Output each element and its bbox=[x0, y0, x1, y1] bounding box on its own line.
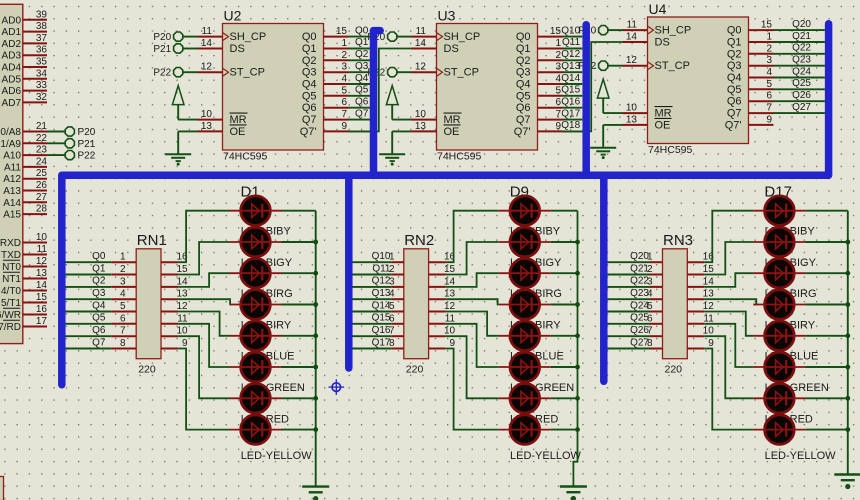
junction bbox=[313, 365, 318, 370]
svg-text:Q22: Q22 bbox=[792, 43, 811, 54]
U1 pin 25 (A12) bbox=[3, 168, 47, 185]
svg-text:12: 12 bbox=[36, 256, 48, 267]
svg-text:14: 14 bbox=[444, 276, 456, 287]
net label Q25 (at RN3) bbox=[630, 313, 649, 324]
svg-text:27: 27 bbox=[36, 192, 48, 203]
junction bbox=[845, 396, 850, 401]
svg-text:Q18: Q18 bbox=[561, 120, 580, 131]
wire bus to RN3 pin 7 bbox=[608, 335, 651, 337]
ground (D1 column) bbox=[302, 487, 329, 500]
svg-text:Q7': Q7' bbox=[514, 126, 531, 138]
wire U3 output row 5 to bus bbox=[563, 95, 583, 97]
svg-text:OE: OE bbox=[230, 126, 246, 138]
value 220 (RN2) bbox=[406, 364, 424, 376]
net label Q5 bbox=[355, 85, 369, 96]
U3 pin 5 bbox=[538, 85, 563, 96]
svg-text:AD0: AD0 bbox=[2, 15, 22, 26]
svg-text:Q1: Q1 bbox=[92, 263, 106, 274]
U4 pin 15 bbox=[749, 20, 774, 31]
svg-text:A15: A15 bbox=[3, 210, 21, 221]
junction bbox=[575, 271, 580, 276]
svg-text:6: 6 bbox=[766, 91, 772, 102]
wire bus to RN3 pin 2 bbox=[608, 274, 651, 276]
svg-text:OE: OE bbox=[444, 126, 460, 138]
wire U3 OE to ground bbox=[392, 131, 411, 154]
value LED-GREEN (D14) bbox=[510, 382, 574, 394]
svg-text:3: 3 bbox=[120, 276, 126, 287]
wire U4 OE to ground bbox=[603, 125, 622, 148]
terminal P20 (at U4) bbox=[578, 26, 607, 37]
svg-text:3: 3 bbox=[766, 55, 772, 66]
svg-text:21: 21 bbox=[36, 121, 48, 132]
LED D22 (LED-GREEN) bbox=[753, 352, 847, 382]
svg-text:SH_CP: SH_CP bbox=[230, 31, 267, 43]
wire P22 to U4 bbox=[608, 65, 622, 67]
U3 pin 7 bbox=[538, 109, 563, 120]
wire VCC to U2 MR bbox=[178, 119, 197, 121]
net label Q7 (at RN1) bbox=[92, 337, 106, 348]
label D17 bbox=[764, 184, 792, 201]
svg-text:11: 11 bbox=[202, 26, 213, 37]
U1 pin 10 (RXD) bbox=[0, 232, 47, 249]
net label Q11 bbox=[562, 37, 581, 48]
U1 pin 16 (6/WR) bbox=[0, 304, 47, 321]
svg-text:Q5: Q5 bbox=[92, 313, 106, 324]
svg-text:Q0: Q0 bbox=[516, 31, 531, 43]
wire P22 to U2 bbox=[183, 71, 197, 73]
RN3 pin 12 bbox=[687, 301, 714, 312]
svg-text:Q20: Q20 bbox=[792, 19, 811, 30]
svg-text:9: 9 bbox=[766, 114, 772, 125]
resistor network RN1 body bbox=[136, 249, 161, 359]
wire U3 output row 4 to bus bbox=[563, 83, 583, 85]
svg-text:Q0: Q0 bbox=[355, 25, 369, 36]
wire U1 pin 23 to terminal P22 bbox=[47, 154, 65, 156]
wire U4 output row 4 to bus bbox=[774, 77, 825, 79]
svg-text:Q6: Q6 bbox=[355, 97, 369, 108]
svg-text:Q3: Q3 bbox=[727, 60, 742, 72]
junction bbox=[845, 365, 850, 370]
RN2 pin 1 bbox=[389, 252, 404, 263]
RN2 pin 16 bbox=[429, 252, 456, 263]
net label Q21 (at RN3) bbox=[630, 263, 649, 274]
RN3 pin 9 bbox=[687, 338, 714, 349]
wire U3 output row 0 to bus bbox=[563, 36, 583, 38]
svg-text:U4: U4 bbox=[649, 1, 667, 17]
wire U2 output row 3 to bus bbox=[349, 71, 371, 73]
wire VCC to U3 MR bbox=[392, 119, 411, 121]
U1 pin 34 (AD5) bbox=[2, 68, 48, 85]
net label Q14 (at RN2) bbox=[372, 300, 391, 311]
RN1 pin 2 bbox=[111, 264, 136, 275]
bus U3 outputs (vertical) bbox=[582, 25, 590, 175]
net label Q18 bbox=[561, 120, 580, 131]
svg-text:14: 14 bbox=[703, 276, 715, 287]
svg-text:Q7: Q7 bbox=[516, 114, 531, 126]
svg-text:Q3: Q3 bbox=[92, 288, 106, 299]
svg-text:Q7: Q7 bbox=[727, 108, 742, 120]
svg-text:5: 5 bbox=[120, 301, 126, 312]
value LED-GREEN (D6) bbox=[241, 382, 305, 394]
svg-text:11: 11 bbox=[37, 244, 48, 255]
wire RN2 pin 16 to D9 anode bbox=[446, 211, 499, 263]
RN2 pin 10 bbox=[429, 326, 456, 337]
label U3 bbox=[438, 8, 456, 24]
svg-text:Q3: Q3 bbox=[355, 61, 369, 72]
value LED-BIGY (D10) bbox=[510, 257, 562, 269]
shift register U2 (74HC595) body bbox=[223, 24, 324, 151]
svg-text:38: 38 bbox=[36, 21, 48, 32]
RN1 pin 12 bbox=[161, 301, 188, 312]
LED D10 (LED-BIGY) bbox=[499, 227, 578, 257]
svg-text:AD5: AD5 bbox=[2, 74, 22, 85]
wire bus to RN3 pin 8 bbox=[608, 348, 651, 350]
svg-text:1: 1 bbox=[555, 38, 561, 49]
svg-text:Q6: Q6 bbox=[302, 102, 317, 114]
value 74HC595 (U2) bbox=[223, 151, 268, 163]
net label Q12 bbox=[561, 49, 580, 60]
U4 pin 3 bbox=[749, 55, 774, 66]
svg-text:13: 13 bbox=[201, 121, 213, 132]
value LED-BIRY (D20) bbox=[765, 319, 816, 331]
U2 pin 9 bbox=[324, 121, 349, 132]
net label Q23 (at RN3) bbox=[630, 288, 649, 299]
wire RN2 pin 15 to D10 anode bbox=[446, 242, 499, 275]
bus RN3 inputs (vertical) bbox=[600, 175, 608, 381]
net label Q10 (at RN2) bbox=[372, 251, 391, 262]
wire RN1 pin 9 to D8 anode bbox=[178, 349, 229, 430]
svg-text:P20: P20 bbox=[78, 127, 96, 138]
svg-text:Q12: Q12 bbox=[372, 276, 391, 287]
svg-text:A11: A11 bbox=[4, 162, 21, 173]
svg-text:Q5: Q5 bbox=[355, 85, 369, 96]
svg-text:9: 9 bbox=[341, 121, 347, 132]
U3 pin 13 bbox=[412, 121, 437, 132]
wire U4 output row 2 to bus bbox=[774, 53, 825, 55]
net label Q24 bbox=[792, 66, 811, 77]
net label Q7 bbox=[355, 108, 369, 119]
value LED-BIGY (D18) bbox=[765, 257, 817, 269]
label RN2 bbox=[404, 232, 434, 249]
svg-text:P20: P20 bbox=[153, 32, 171, 43]
svg-text:Q24: Q24 bbox=[792, 66, 811, 77]
svg-text:11: 11 bbox=[703, 313, 714, 324]
svg-text:35: 35 bbox=[36, 57, 48, 68]
svg-text:13: 13 bbox=[415, 121, 427, 132]
wire U2 output row 2 to bus bbox=[349, 59, 371, 61]
wire U3 output row 3 to bus bbox=[563, 71, 583, 73]
svg-text:Q7': Q7' bbox=[300, 126, 317, 138]
net label Q27 (at RN3) bbox=[630, 337, 649, 348]
RN1 pin 4 bbox=[111, 289, 136, 300]
svg-text:12: 12 bbox=[703, 301, 715, 312]
net label Q22 bbox=[792, 43, 811, 54]
wire RN1 pin 16 to D1 anode bbox=[178, 211, 229, 263]
RN2 pin 2 bbox=[389, 264, 404, 275]
svg-text:1/A9: 1/A9 bbox=[0, 139, 21, 150]
terminal P22 (at U2) bbox=[153, 68, 182, 79]
wire P20 to U4 bbox=[608, 29, 622, 31]
RN2 pin 8 bbox=[389, 338, 404, 349]
net label Q15 bbox=[561, 85, 580, 96]
wire RN1 pin 10 to D7 anode bbox=[178, 336, 229, 398]
svg-text:9: 9 bbox=[708, 338, 714, 349]
svg-text:14: 14 bbox=[36, 280, 48, 291]
LED D5 (LED-BLUE) bbox=[230, 321, 316, 351]
U1 pin 36 (AD3) bbox=[2, 45, 48, 62]
svg-text:AD6: AD6 bbox=[2, 86, 22, 97]
U3 pin 12 bbox=[412, 62, 437, 73]
RN3 pin 8 bbox=[647, 338, 663, 349]
wire U3 output row 1 to bus bbox=[563, 48, 583, 50]
junction bbox=[845, 427, 850, 432]
svg-text:11: 11 bbox=[445, 313, 456, 324]
svg-text:15: 15 bbox=[36, 292, 48, 303]
junction bbox=[575, 427, 580, 432]
wire bus to RN3 pin 6 bbox=[608, 323, 651, 325]
svg-text:3: 3 bbox=[341, 62, 347, 73]
LED D18 (LED-BIGY) bbox=[753, 227, 847, 257]
LED D6 (LED-GREEN) bbox=[230, 352, 316, 382]
net label Q13 bbox=[561, 61, 580, 72]
label D1 bbox=[241, 184, 260, 201]
svg-text:Q21: Q21 bbox=[792, 31, 811, 42]
svg-text:Q2: Q2 bbox=[516, 55, 531, 67]
wire RN1 pin 15 to D2 anode bbox=[178, 242, 229, 275]
RN3 pin 13 bbox=[687, 289, 714, 300]
svg-text:Q2: Q2 bbox=[302, 55, 317, 67]
svg-text:Q17: Q17 bbox=[561, 108, 580, 119]
wire U4 output row 7 to bus bbox=[774, 112, 825, 114]
wire RN2 pin 13 to D12 anode bbox=[446, 299, 499, 304]
svg-text:Q4: Q4 bbox=[355, 73, 369, 84]
value LED-GREEN (D22) bbox=[765, 382, 829, 394]
svg-text:Q24: Q24 bbox=[630, 300, 649, 311]
wire bus to RN1 pin 2 bbox=[66, 274, 112, 276]
svg-text:A13: A13 bbox=[3, 186, 21, 197]
value LED-BIRY (D12) bbox=[510, 319, 561, 331]
svg-text:LED-YELLOW: LED-YELLOW bbox=[510, 450, 582, 462]
svg-text:34: 34 bbox=[36, 68, 48, 79]
svg-text:Q6: Q6 bbox=[727, 96, 742, 108]
svg-text:Q21: Q21 bbox=[630, 263, 649, 274]
net label Q3 bbox=[355, 61, 369, 72]
svg-text:RXD: RXD bbox=[0, 238, 21, 249]
net label Q24 (at RN3) bbox=[630, 300, 649, 311]
svg-text:P21: P21 bbox=[153, 44, 171, 55]
net label Q2 (at RN1) bbox=[92, 276, 106, 287]
svg-text:ST_CP: ST_CP bbox=[230, 67, 265, 79]
resistor network RN2 body bbox=[404, 249, 429, 359]
net label Q0 bbox=[355, 25, 369, 36]
U3 pin 10 bbox=[412, 109, 437, 120]
svg-text:NT0: NT0 bbox=[2, 262, 21, 273]
bus RN2 inputs (vertical) bbox=[345, 175, 353, 368]
wire bus to RN1 pin 3 bbox=[66, 286, 112, 288]
U2 pin 12 bbox=[198, 62, 223, 73]
svg-text:DS: DS bbox=[444, 43, 459, 55]
wire bus to RN1 pin 7 bbox=[66, 335, 112, 337]
value LED-BIGY (D2) bbox=[241, 257, 293, 269]
svg-text:AD4: AD4 bbox=[2, 63, 22, 74]
U1 pin 12 (NT0) bbox=[2, 256, 47, 273]
LED D8 (LED-YELLOW) bbox=[230, 415, 316, 445]
svg-text:6: 6 bbox=[341, 97, 347, 108]
LED D12 (LED-BIRY) bbox=[499, 290, 578, 320]
wire bus to RN1 pin 6 bbox=[66, 323, 112, 325]
label D9 bbox=[510, 184, 529, 201]
wire U2 output row 7 to bus bbox=[349, 119, 371, 121]
svg-text:Q2: Q2 bbox=[355, 49, 369, 60]
net label Q16 (at RN2) bbox=[372, 325, 391, 336]
U1 pin 14 (4/T0) bbox=[1, 280, 47, 297]
U1 pin 13 (NT1) bbox=[2, 268, 47, 285]
RN2 pin 9 bbox=[429, 338, 456, 349]
RN2 pin 14 bbox=[429, 276, 456, 287]
U2 pin 2 bbox=[324, 50, 349, 61]
svg-text:14: 14 bbox=[201, 38, 213, 49]
net label Q1 bbox=[355, 37, 369, 48]
value LED-BIBY (D1) bbox=[241, 226, 292, 238]
wire U2 output row 8 to bus bbox=[349, 130, 371, 132]
shift register U4 (74HC595) body bbox=[648, 17, 749, 144]
svg-text:220: 220 bbox=[665, 364, 683, 376]
svg-text:Q4: Q4 bbox=[302, 79, 317, 91]
svg-text:Q7': Q7' bbox=[725, 119, 742, 131]
U3 pin 6 bbox=[538, 97, 563, 108]
svg-text:RN3: RN3 bbox=[663, 232, 693, 249]
svg-text:10: 10 bbox=[626, 103, 638, 114]
svg-text:DS: DS bbox=[655, 37, 670, 49]
LED D2 (LED-BIGY) bbox=[230, 227, 316, 257]
LED D14 (LED-GREEN) bbox=[499, 352, 578, 382]
svg-text:MR: MR bbox=[655, 108, 672, 120]
wire bus to RN2 pin 6 bbox=[353, 323, 392, 325]
LED D13 (LED-BLUE) bbox=[499, 321, 578, 351]
svg-text:7: 7 bbox=[766, 103, 772, 114]
wire RN1 pin 13 to D4 anode bbox=[178, 299, 230, 304]
wire RN3 pin 15 to D18 anode bbox=[704, 242, 753, 275]
RN3 pin 10 bbox=[687, 326, 714, 337]
svg-text:Q26: Q26 bbox=[792, 90, 811, 101]
svg-text:DS: DS bbox=[230, 43, 245, 55]
svg-text:Q22: Q22 bbox=[630, 276, 649, 287]
wire bus to RN3 pin 5 bbox=[608, 311, 651, 313]
junction bbox=[845, 240, 850, 245]
RN1 pin 5 bbox=[111, 301, 136, 312]
wire U2 output row 0 to bus bbox=[349, 36, 371, 38]
svg-text:74HC595: 74HC595 bbox=[223, 151, 268, 163]
svg-text:7: 7 bbox=[341, 109, 347, 120]
bus main (left riser + horizontal + right riser) bbox=[62, 24, 829, 385]
wire U4 output row 0 to bus bbox=[774, 29, 825, 31]
label U2 bbox=[224, 8, 242, 24]
value 74HC595 (U3) bbox=[437, 151, 482, 163]
svg-text:13: 13 bbox=[703, 289, 715, 300]
svg-text:7: 7 bbox=[120, 326, 126, 337]
svg-text:LED-YELLOW: LED-YELLOW bbox=[765, 450, 837, 462]
wire RN3 pin 14 to D19 anode bbox=[704, 273, 753, 287]
net label Q6 (at RN1) bbox=[92, 325, 106, 336]
junction bbox=[575, 365, 580, 370]
svg-text:15: 15 bbox=[176, 264, 188, 275]
power terminal VCC (U4 MR) bbox=[597, 79, 609, 113]
svg-text:15: 15 bbox=[336, 26, 348, 37]
RN2 pin 13 bbox=[429, 289, 456, 300]
terminal P20 (at U3) bbox=[367, 32, 396, 43]
svg-text:Q10: Q10 bbox=[372, 251, 391, 262]
RN1 pin 13 bbox=[161, 289, 188, 300]
RN1 pin 1 bbox=[111, 252, 136, 263]
svg-text:10: 10 bbox=[703, 326, 715, 337]
svg-text:U3: U3 bbox=[438, 8, 456, 24]
net label Q14 bbox=[561, 73, 580, 84]
component (partial, bottom-left edge) bbox=[0, 477, 4, 500]
value LED-RED (D23) bbox=[765, 413, 813, 425]
junction bbox=[313, 271, 318, 276]
junction bbox=[575, 396, 580, 401]
svg-text:Q7: Q7 bbox=[355, 108, 369, 119]
terminal P20 (at U2) bbox=[153, 32, 182, 43]
svg-text:Q0: Q0 bbox=[92, 251, 106, 262]
wire RN3 pin 9 to D24 anode bbox=[704, 349, 753, 430]
U3 pin 3 bbox=[538, 62, 563, 73]
svg-text:RN1: RN1 bbox=[137, 232, 167, 249]
svg-text:Q0: Q0 bbox=[302, 31, 317, 43]
LED D21 (LED-BLUE) bbox=[753, 321, 847, 351]
svg-text:Q13: Q13 bbox=[372, 288, 391, 299]
origin marker bbox=[329, 379, 345, 395]
svg-text:Q17: Q17 bbox=[372, 337, 391, 348]
value 220 (RN1) bbox=[138, 364, 156, 376]
U4 pin 10 bbox=[623, 103, 648, 114]
wire U3 output row 6 to bus bbox=[563, 107, 583, 109]
svg-text:Q14: Q14 bbox=[372, 300, 391, 311]
net label Q22 (at RN3) bbox=[630, 276, 649, 287]
svg-text:Q12: Q12 bbox=[561, 49, 580, 60]
junction bbox=[575, 333, 580, 338]
svg-text:5: 5 bbox=[766, 79, 772, 90]
wire P20 to U3 bbox=[397, 36, 411, 38]
value LED-BLUE (D13) bbox=[510, 351, 564, 363]
value LED-YELLOW (D24) bbox=[765, 450, 837, 462]
svg-text:0/A8: 0/A8 bbox=[0, 127, 21, 138]
svg-text:13: 13 bbox=[36, 268, 48, 279]
svg-text:Q0: Q0 bbox=[727, 25, 742, 37]
svg-text:ST_CP: ST_CP bbox=[444, 67, 479, 79]
svg-text:37: 37 bbox=[36, 33, 48, 44]
U3 pin 14 bbox=[412, 38, 437, 49]
RN3 pin 4 bbox=[647, 289, 663, 300]
RN3 pin 6 bbox=[647, 313, 663, 324]
wire bus to RN1 pin 8 bbox=[66, 348, 112, 350]
wire bus to RN2 pin 3 bbox=[353, 286, 392, 288]
ground (U3) bbox=[379, 154, 405, 165]
U1 pin 24 (A11) bbox=[4, 156, 47, 173]
RN1 pin 10 bbox=[161, 326, 188, 337]
svg-text:2: 2 bbox=[766, 43, 772, 54]
svg-text:32: 32 bbox=[36, 92, 48, 103]
power terminal VCC (U3 MR) bbox=[386, 86, 398, 120]
U2 pin 14 bbox=[198, 38, 223, 49]
resistor network RN3 body bbox=[663, 249, 688, 359]
svg-text:P21: P21 bbox=[78, 139, 96, 150]
svg-text:A14: A14 bbox=[3, 198, 21, 209]
svg-text:Q3: Q3 bbox=[302, 67, 317, 79]
ground (U4) bbox=[590, 148, 616, 159]
U3 pin 1 bbox=[538, 38, 563, 49]
LED D19 (LED-BIRG) bbox=[753, 258, 847, 288]
